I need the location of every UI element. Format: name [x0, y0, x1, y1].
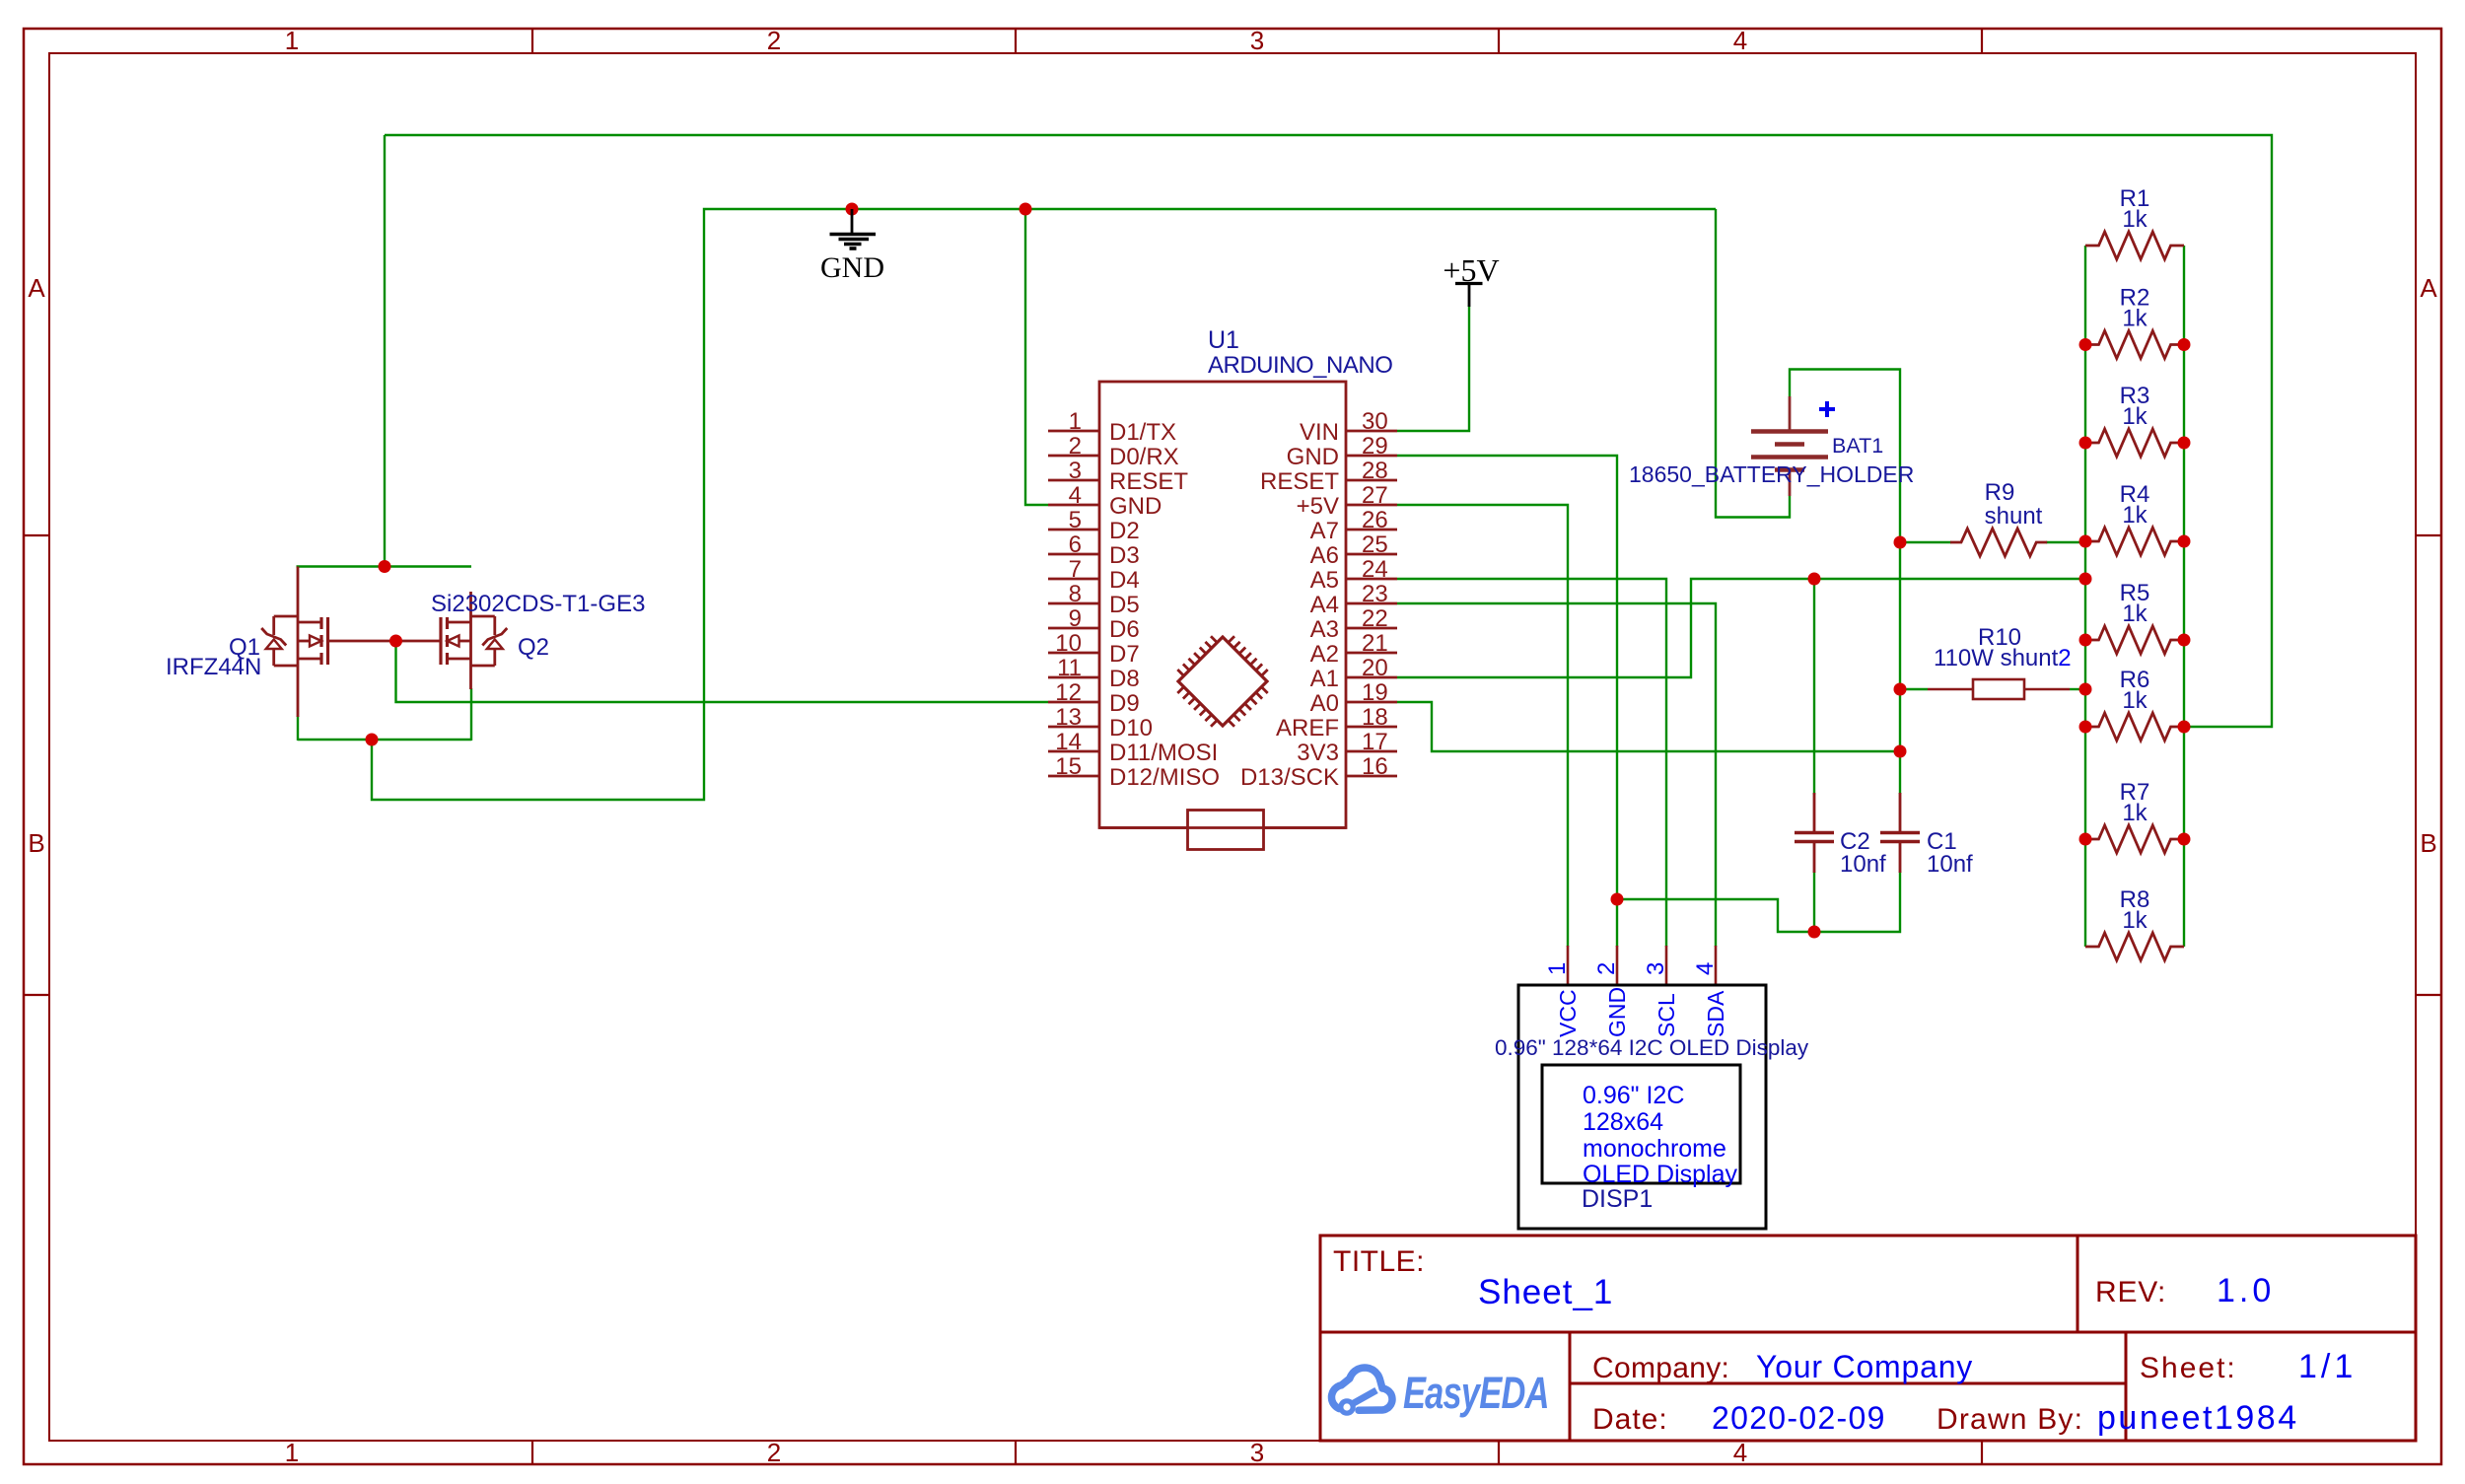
- svg-text:110W shunt2: 110W shunt2: [1934, 645, 2072, 671]
- svg-text:REV:: REV:: [2095, 1276, 2166, 1308]
- svg-text:13: 13: [1055, 704, 1082, 731]
- svg-text:3: 3: [1250, 1438, 1264, 1467]
- svg-text:A4: A4: [1310, 592, 1339, 618]
- svg-text:Drawn By:: Drawn By:: [1937, 1403, 2083, 1436]
- svg-text:16: 16: [1362, 753, 1388, 780]
- svg-text:B: B: [28, 828, 44, 858]
- svg-text:28: 28: [1362, 458, 1388, 484]
- svg-text:29: 29: [1362, 433, 1388, 459]
- svg-text:D13/SCK: D13/SCK: [1240, 764, 1339, 791]
- svg-text:10nf: 10nf: [1840, 851, 1886, 878]
- svg-text:ARDUINO_NANO: ARDUINO_NANO: [1208, 352, 1392, 379]
- svg-text:D9: D9: [1109, 690, 1140, 717]
- svg-text:8: 8: [1069, 581, 1082, 607]
- svg-text:TITLE:: TITLE:: [1333, 1245, 1425, 1278]
- svg-text:18: 18: [1362, 704, 1388, 731]
- svg-text:EasyEDA: EasyEDA: [1403, 1370, 1549, 1418]
- svg-text:0.96" 128*64 I2C OLED Display: 0.96" 128*64 I2C OLED Display: [1495, 1035, 1809, 1060]
- svg-text:Company:: Company:: [1592, 1352, 1729, 1384]
- svg-text:3: 3: [1643, 962, 1669, 975]
- svg-text:U1: U1: [1208, 326, 1239, 354]
- svg-text:30: 30: [1362, 408, 1388, 435]
- svg-text:22: 22: [1362, 605, 1388, 632]
- svg-text:A0: A0: [1310, 690, 1339, 717]
- svg-text:2: 2: [767, 1438, 781, 1467]
- svg-text:B: B: [2420, 828, 2436, 858]
- svg-text:2020-02-09: 2020-02-09: [1712, 1400, 1886, 1436]
- svg-text:1: 1: [285, 26, 299, 55]
- svg-text:1k: 1k: [2122, 403, 2148, 430]
- svg-text:RESET: RESET: [1109, 468, 1188, 495]
- svg-text:3V3: 3V3: [1297, 740, 1339, 766]
- svg-text:BAT1: BAT1: [1832, 434, 1883, 458]
- svg-text:1k: 1k: [2122, 502, 2148, 529]
- svg-text:18650_BATTERY_HOLDER: 18650_BATTERY_HOLDER: [1629, 461, 1914, 487]
- svg-text:Sheet:: Sheet:: [2140, 1352, 2237, 1384]
- svg-text:27: 27: [1362, 482, 1388, 509]
- svg-text:11: 11: [1057, 655, 1082, 681]
- svg-text:9: 9: [1069, 605, 1082, 632]
- svg-text:Q2: Q2: [518, 634, 549, 661]
- svg-text:shunt: shunt: [1985, 503, 2043, 530]
- svg-text:14: 14: [1055, 729, 1082, 755]
- svg-text:12: 12: [1055, 679, 1082, 706]
- svg-text:6: 6: [1069, 531, 1082, 558]
- svg-text:128x64: 128x64: [1583, 1108, 1663, 1136]
- svg-text:1k: 1k: [2122, 687, 2148, 714]
- svg-text:Sheet_1: Sheet_1: [1478, 1273, 1613, 1311]
- svg-text:D0/RX: D0/RX: [1109, 444, 1179, 470]
- svg-text:1: 1: [1544, 962, 1571, 975]
- svg-text:1k: 1k: [2122, 206, 2148, 233]
- svg-text:4: 4: [1733, 26, 1747, 55]
- svg-text:2: 2: [1069, 433, 1082, 459]
- svg-text:A3: A3: [1310, 616, 1339, 643]
- svg-text:D12/MISO: D12/MISO: [1109, 764, 1220, 791]
- svg-text:D10: D10: [1109, 715, 1153, 742]
- svg-text:1k: 1k: [2122, 907, 2148, 934]
- svg-text:IRFZ44N: IRFZ44N: [166, 654, 261, 680]
- svg-text:puneet1984: puneet1984: [2097, 1399, 2299, 1437]
- svg-text:17: 17: [1362, 729, 1388, 755]
- svg-text:21: 21: [1362, 630, 1388, 657]
- svg-text:5: 5: [1069, 507, 1082, 533]
- svg-text:1: 1: [1069, 408, 1082, 435]
- svg-text:24: 24: [1362, 556, 1388, 583]
- svg-text:3: 3: [1069, 458, 1082, 484]
- svg-text:DISP1: DISP1: [1582, 1185, 1653, 1213]
- svg-text:D3: D3: [1109, 542, 1140, 569]
- svg-text:20: 20: [1362, 655, 1388, 681]
- svg-text:A1: A1: [1310, 666, 1339, 692]
- svg-text:1.0: 1.0: [2217, 1272, 2275, 1309]
- svg-text:1/1: 1/1: [2298, 1348, 2357, 1385]
- svg-text:OLED Display: OLED Display: [1583, 1161, 1737, 1188]
- svg-text:A6: A6: [1310, 542, 1339, 569]
- svg-text:15: 15: [1055, 753, 1082, 780]
- svg-text:D7: D7: [1109, 641, 1140, 668]
- svg-text:D6: D6: [1109, 616, 1140, 643]
- svg-text:10nf: 10nf: [1927, 851, 1973, 878]
- svg-text:A: A: [2420, 273, 2437, 303]
- svg-text:1k: 1k: [2122, 306, 2148, 332]
- svg-text:D2: D2: [1109, 518, 1140, 544]
- svg-text:A: A: [28, 273, 45, 303]
- svg-text:10: 10: [1055, 630, 1082, 657]
- svg-text:AREF: AREF: [1276, 715, 1339, 742]
- svg-text:D4: D4: [1109, 567, 1140, 594]
- svg-text:19: 19: [1362, 679, 1388, 706]
- svg-text:GND: GND: [1604, 987, 1630, 1037]
- svg-text:2: 2: [767, 26, 781, 55]
- svg-text:A2: A2: [1310, 641, 1339, 668]
- svg-text:A5: A5: [1310, 567, 1339, 594]
- svg-text:D1/TX: D1/TX: [1109, 419, 1176, 446]
- svg-text:4: 4: [1692, 962, 1719, 975]
- svg-text:1k: 1k: [2122, 601, 2148, 627]
- svg-text:Your Company: Your Company: [1756, 1349, 1973, 1384]
- svg-text:RESET: RESET: [1260, 468, 1339, 495]
- svg-text:0.96" I2C: 0.96" I2C: [1583, 1082, 1684, 1109]
- svg-text:SDA: SDA: [1703, 990, 1728, 1037]
- svg-text:GND: GND: [820, 251, 884, 284]
- svg-text:Si2302CDS-T1-GE3: Si2302CDS-T1-GE3: [431, 591, 645, 617]
- svg-text:7: 7: [1069, 556, 1082, 583]
- svg-text:VCC: VCC: [1555, 989, 1581, 1037]
- svg-text:1k: 1k: [2122, 800, 2148, 826]
- svg-text:Date:: Date:: [1592, 1403, 1668, 1436]
- svg-text:D5: D5: [1109, 592, 1140, 618]
- svg-text:4: 4: [1069, 482, 1082, 509]
- svg-text:R9: R9: [1985, 479, 2015, 506]
- svg-text:GND: GND: [1109, 493, 1162, 520]
- svg-text:3: 3: [1250, 26, 1264, 55]
- svg-text:+5V: +5V: [1297, 493, 1339, 520]
- svg-text:A7: A7: [1310, 518, 1339, 544]
- svg-text:D11/MOSI: D11/MOSI: [1109, 740, 1218, 766]
- svg-text:25: 25: [1362, 531, 1388, 558]
- svg-text:SCL: SCL: [1654, 993, 1679, 1037]
- svg-text:23: 23: [1362, 581, 1388, 607]
- svg-text:D8: D8: [1109, 666, 1140, 692]
- svg-text:VIN: VIN: [1300, 419, 1339, 446]
- svg-text:1: 1: [285, 1438, 299, 1467]
- svg-text:2: 2: [1593, 962, 1620, 975]
- svg-text:monochrome: monochrome: [1583, 1135, 1726, 1163]
- svg-text:26: 26: [1362, 507, 1388, 533]
- svg-text:GND: GND: [1287, 444, 1339, 470]
